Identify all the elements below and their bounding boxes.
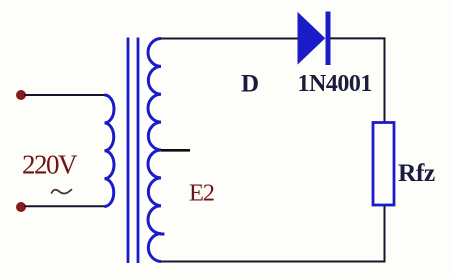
wire: lower terminal to primary coil xyxy=(24,205,105,207)
svg-text:1N4001: 1N4001 xyxy=(298,71,372,97)
transformer secondary winding E2 xyxy=(148,39,161,262)
svg-text:Rfz: Rfz xyxy=(398,158,435,187)
transformer core line 1 xyxy=(127,38,130,264)
transformer core line 2 xyxy=(137,38,140,264)
wire: upper terminal to primary coil xyxy=(24,94,105,96)
wire: secondary top to diode anode xyxy=(161,38,299,40)
resistor Rfz body xyxy=(373,123,394,206)
center tap wire of secondary xyxy=(161,149,190,152)
wire: diode cathode to top-right corner and down to resistor xyxy=(331,38,385,121)
svg-text:E2: E2 xyxy=(189,180,214,207)
transformer primary winding L1 xyxy=(105,95,114,207)
diode D cathode bar xyxy=(326,12,331,66)
small stub tick at secondary lower cusp xyxy=(160,233,165,236)
terminal dot lower (220V input) xyxy=(16,202,26,212)
diode D triangle (anode) xyxy=(298,13,325,64)
svg-text:D: D xyxy=(241,71,259,98)
wire: resistor bottom down and along bottom back to secondary xyxy=(161,206,385,262)
terminal dot upper (220V input) xyxy=(16,90,26,100)
svg-text:220V: 220V xyxy=(22,150,78,180)
AC tilde symbol xyxy=(52,190,72,194)
